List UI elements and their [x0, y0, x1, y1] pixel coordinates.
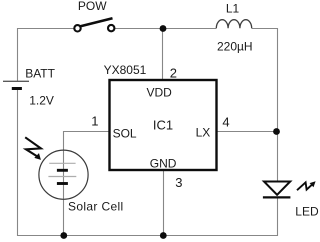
- light arrow onto solar cell: [25, 137, 41, 160]
- solar cell plate thin 1: [49, 162, 75, 164]
- svg-text:VDD: VDD: [147, 85, 173, 99]
- solar cell plate thick 1: [57, 169, 68, 172]
- node junction dot LED/LX: [273, 128, 280, 135]
- wire left side battery to bottom: [18, 90, 64, 236]
- solar cell plate thin 2: [48, 176, 76, 178]
- LED light emission arrow: [297, 181, 316, 190]
- op-amp U1 : IC box YX8051: [110, 80, 217, 170]
- wire inductor to top-right corner down right side: [252, 29, 278, 182]
- wire switch to junction A: [114, 28, 163, 30]
- svg-text:L1: L1: [226, 2, 240, 16]
- node junction dot top (VDD net): [160, 25, 167, 32]
- svg-text:SOL: SOL: [113, 127, 137, 141]
- svg-text:1.2V: 1.2V: [29, 94, 54, 108]
- wire pin 1 SOL to solar cell: [64, 132, 110, 236]
- wire top-left from corner to switch: [18, 29, 75, 82]
- svg-text:LX: LX: [196, 126, 211, 140]
- svg-text:1: 1: [91, 114, 98, 129]
- switch POW: [74, 18, 114, 31]
- svg-text:4: 4: [222, 114, 229, 129]
- svg-text:220µH: 220µH: [217, 40, 253, 54]
- wire right side below LED: [277, 197, 279, 236]
- wire bottom rail: [64, 235, 278, 237]
- wire pin 2 VDD: [162, 29, 164, 81]
- battery BATT plate negative (short thick): [12, 87, 22, 90]
- svg-text:GND: GND: [150, 156, 177, 170]
- solar cell circle: [39, 150, 88, 199]
- inductor L1: [216, 20, 251, 29]
- wire pin 4 LX to right rail: [217, 131, 278, 133]
- svg-text:Solar Cell: Solar Cell: [68, 200, 124, 214]
- solar cell plate thick 2: [57, 182, 68, 185]
- svg-text:3: 3: [175, 175, 182, 190]
- battery BATT plate positive (long thin): [3, 80, 29, 82]
- node junction dot solar cell / bottom rail: [60, 232, 67, 239]
- wire pin 3 GND to bottom rail: [163, 171, 165, 236]
- svg-text:BATT: BATT: [25, 67, 55, 81]
- svg-text:YX8051: YX8051: [104, 63, 147, 77]
- svg-text:POW: POW: [78, 0, 107, 13]
- svg-text:2: 2: [170, 66, 177, 81]
- node junction dot GND / bottom rail: [160, 232, 167, 239]
- svg-text:IC1: IC1: [153, 118, 173, 133]
- svg-text:LED: LED: [295, 204, 319, 218]
- wire junction A to inductor: [163, 28, 216, 30]
- LED D1: [263, 182, 291, 198]
